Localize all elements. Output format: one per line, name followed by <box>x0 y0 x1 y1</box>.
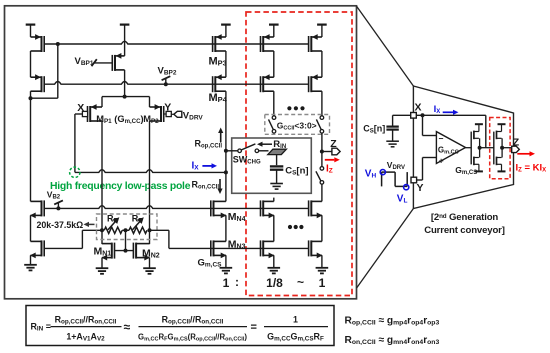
wire SWCHG to RIN <box>259 150 269 152</box>
label VB2 <box>47 189 61 200</box>
node VL circle (blue) <box>404 185 409 190</box>
node RF-left junction <box>100 228 104 232</box>
wire X to CS[n] <box>393 115 411 125</box>
arrow Iz (red) <box>325 157 340 162</box>
wire T4 source to T5 drain <box>30 215 32 241</box>
wire X node line <box>75 170 226 173</box>
wire RF middle <box>122 229 129 231</box>
terminal Z pentagon (conveyor) <box>512 146 520 152</box>
ground symbol (conveyor CS) <box>386 141 399 147</box>
green dashed circle (low-pass pole node) <box>70 167 80 177</box>
wire MP2 source vertical <box>149 97 151 107</box>
wire rail1 (T1 gate / MP3 gate / branch PMOS gates) <box>44 41 308 44</box>
wire X feedback vertical <box>485 115 487 147</box>
wire T2 drain to gate-feedback vertical <box>31 97 58 99</box>
wire T5 gate riser <box>81 230 83 248</box>
label VL (blue) <box>397 193 408 204</box>
VDD symbol (branch 2) <box>317 25 327 37</box>
terminal X square (conveyor) <box>411 113 417 119</box>
transistor P1a (branch PMOS) <box>261 34 274 52</box>
wire X to amp inverting input <box>423 115 437 135</box>
resistor RF (right) <box>129 227 147 233</box>
wire PA/NA drain link <box>479 138 481 157</box>
arrow Iz (conveyor, red) <box>517 151 535 156</box>
ellipsis dots (NMOS branches) <box>288 225 304 229</box>
waveform VDRV <box>382 172 408 186</box>
label MP2 <box>143 114 159 125</box>
fraction 3 bar <box>264 326 328 328</box>
wire MP4 drain down main column <box>225 91 227 201</box>
wire MN4 source to MN3 drain <box>225 215 227 241</box>
label ratio colon <box>235 275 239 289</box>
wire amp output <box>466 147 472 149</box>
resistor RF (left) <box>104 227 122 233</box>
svg-text:X: X <box>415 102 422 114</box>
node stage A output <box>478 146 482 150</box>
node RF-right junction <box>148 228 152 232</box>
fraction 2 denominator <box>138 333 247 343</box>
callout line bottom <box>357 209 414 289</box>
VDD symbol (left mirror) <box>26 25 36 37</box>
equation RIN lhs <box>31 322 51 333</box>
gate bar stage A <box>470 132 472 165</box>
svg-text:1: 1 <box>223 276 230 290</box>
label RF (left) <box>107 214 118 225</box>
transistor NB (conveyor NMOS B) <box>497 157 506 172</box>
label VDRV <box>183 111 204 122</box>
wire N1b source down <box>273 255 275 267</box>
transistor MN1 <box>101 243 114 261</box>
wire N2b source down <box>321 255 323 267</box>
fraction 1 numerator <box>55 314 117 325</box>
transistor T1 (PMOS mirror top) <box>31 34 45 52</box>
svg-text:1: 1 <box>319 276 326 290</box>
terminal X square <box>82 111 87 116</box>
node tail junction <box>123 95 127 99</box>
label plus <box>439 155 444 165</box>
ground symbol (N1b) <box>268 268 281 274</box>
switch GCCII branch 2 <box>316 116 323 133</box>
wire switch2 to Z node <box>321 133 323 151</box>
svg-text:=: = <box>251 322 257 334</box>
wire vertical T1 gate to T2 drain <box>57 44 59 98</box>
label ratio tilde <box>297 275 304 289</box>
transistor N1b (branch NMOS) <box>261 240 275 258</box>
transistor MP3 (PMOS) <box>213 34 226 52</box>
label 20k-37.5k <box>37 220 84 230</box>
transistor MP4 (PMOS cascode) <box>213 74 226 92</box>
label Z (conveyor) <box>513 137 520 149</box>
arrow RF-left trim <box>108 217 119 230</box>
wire rail3 (MN4/branch gate rail) <box>44 206 308 209</box>
transistor P1b (branch PMOS cascode) <box>261 74 274 92</box>
ground symbol (MN1) <box>96 268 109 274</box>
fraction 3 denominator <box>267 332 324 343</box>
arrow RIN pointer <box>257 142 272 147</box>
transistor T2 (PMOS cascode mirror) <box>31 74 45 92</box>
wire N1a-N1b link <box>273 215 275 241</box>
terminal Z pentagon <box>332 148 340 155</box>
wire RIN to CS <box>276 155 278 166</box>
ground symbol (MN2) <box>143 268 156 274</box>
VDD symbol (MP3) <box>221 25 231 37</box>
label VH (blue) <box>365 168 377 179</box>
label MP4 <box>209 92 228 104</box>
resistor RIN (parallelogram) <box>268 149 287 154</box>
transistor N1a (branch NMOS cascode) <box>261 200 275 218</box>
wire T5 source down <box>30 255 32 264</box>
wire RF-right to MN3-gate riser <box>150 229 169 231</box>
wire Z out (conveyor) <box>502 147 512 149</box>
node T2 drain junction <box>29 96 33 100</box>
svg-text:+: + <box>439 155 444 165</box>
transistor P2a (branch PMOS) <box>309 34 322 52</box>
label MP1 (Gm,CC) MP2 <box>96 114 143 125</box>
label VBP1 <box>75 56 94 67</box>
wire left column vertical down to VB2 device <box>30 98 32 201</box>
callout line top <box>357 6 414 86</box>
wire RF-left stub <box>82 229 102 231</box>
label Ron,CCII <box>192 179 220 190</box>
wire MP3 drain to MP4 source <box>225 51 227 77</box>
label VBP2 <box>158 66 177 77</box>
label ratio 1/8 <box>266 276 283 290</box>
fraction 1 denominator <box>66 332 105 343</box>
switch SWCHG <box>238 144 259 153</box>
wire MP2 drain / MN2 drain column <box>149 121 151 244</box>
wire N2a-N2b link <box>321 215 323 241</box>
svg-text:−: − <box>439 134 444 144</box>
transistor MN4 (NMOS cascode) <box>211 200 227 218</box>
inner box (sampling network) <box>232 138 312 193</box>
capacitor CS[n] (conveyor) <box>386 127 398 141</box>
wire Z to terminal <box>322 151 332 153</box>
VDD symbol (branch 1) <box>269 25 279 37</box>
wire T2 drain down <box>30 91 32 98</box>
equation approx 1 <box>124 320 131 334</box>
transistor MP1 (Gm,CC pair left) <box>88 104 103 122</box>
wire MN1-MN2 gate link <box>115 250 134 252</box>
wire MN1 source down <box>101 258 103 268</box>
label Gm,CS <box>198 257 223 268</box>
label 2nd generation line2 <box>424 225 505 236</box>
bias tick VBP1 <box>92 59 97 66</box>
ground symbol (CS[n]) <box>270 184 283 190</box>
label SWCHG <box>233 154 261 165</box>
wire Y gate lead <box>164 113 166 115</box>
capacitor CS[n] <box>270 166 283 183</box>
svg-text:~: ~ <box>297 275 304 289</box>
wire X input vertical <box>74 114 76 172</box>
wire X horizontal (conveyor) <box>416 114 486 116</box>
wire T5 gate lead <box>44 247 82 249</box>
label ratio 1 (right) <box>319 276 326 290</box>
node SWCHG branch junction <box>224 149 228 153</box>
equation box <box>26 306 334 346</box>
arrow RF value pointer <box>84 222 95 227</box>
transistor MN2 <box>133 243 150 261</box>
wire T1 drain to T2 source <box>30 51 32 77</box>
fraction 2 bar <box>139 326 248 328</box>
conveyor trapezoid <box>413 86 513 209</box>
red dashed box (programmable branch region) <box>246 12 352 296</box>
arrow RF-right trim <box>133 217 144 230</box>
svg-text:1: 1 <box>293 314 298 324</box>
wire P2b drain to switch <box>321 91 323 116</box>
label VDRV (conveyor) <box>387 160 405 171</box>
node VH circle (blue) <box>380 170 385 175</box>
label MN2 <box>142 247 160 259</box>
svg-text:CS[n]: CS[n] <box>363 124 385 135</box>
terminal Y square <box>166 111 171 116</box>
svg-text:GCCII<3:0>: GCCII<3:0> <box>277 121 317 132</box>
label RIN <box>273 139 286 150</box>
svg-text:Current conveyor]: Current conveyor] <box>424 225 505 236</box>
transistor NA (conveyor NMOS A) <box>474 157 483 172</box>
wire MP1 drain / MN1 drain column <box>101 121 103 244</box>
symbol VDRV tag <box>171 111 182 117</box>
switch GCCII branch 1 <box>269 116 276 133</box>
node X junction (conveyor) <box>421 113 425 117</box>
svg-text:Y: Y <box>417 182 424 194</box>
arrow Ron down <box>217 179 222 194</box>
fraction 1 bar <box>51 326 122 328</box>
gate bar stage B <box>493 132 495 165</box>
node rail3/VB2 junction <box>56 206 60 210</box>
fraction 2 numerator <box>162 314 224 325</box>
gray dashed box (GCCII switches) <box>265 115 330 135</box>
node gate link junction <box>124 249 128 253</box>
svg-text:High frequency low-pass pole: High frequency low-pass pole <box>50 181 191 192</box>
wire rail4 (MN3/branch gate rail) <box>169 247 309 249</box>
transistor T5 (NMOS mirror bottom) <box>30 240 44 258</box>
svg-text:20k-37.5kΩ: 20k-37.5kΩ <box>37 220 84 230</box>
bias tick VBP2 <box>162 76 171 84</box>
VDD symbol (VBP1 device) <box>120 25 130 56</box>
label Ix (blue) <box>192 160 200 171</box>
equation Rop,CCII approx <box>345 316 440 327</box>
wire MN3 source down <box>225 255 227 267</box>
wire P1b drain to switch <box>273 91 275 116</box>
node X-line column junction <box>224 170 228 174</box>
transistor MP2 (Gm,CC pair right) <box>150 104 164 122</box>
op-amp Gm,CC (conveyor) <box>436 132 465 164</box>
wire P2a-P2b link <box>321 51 323 77</box>
transistor P2b (branch PMOS cascode) <box>309 74 322 92</box>
wire PB/NB drain link <box>501 138 503 157</box>
border frame (decorative) <box>5 6 357 299</box>
wire P1a-P1b link <box>273 51 275 77</box>
wire tail horizontal <box>102 96 150 98</box>
label CS[n] <box>285 166 308 177</box>
label Y (conveyor) <box>417 182 424 194</box>
label RF (right) <box>132 214 143 225</box>
ellipsis dots (PMOS branches) <box>287 106 304 110</box>
svg-text:CS[n]: CS[n] <box>285 166 308 177</box>
label Iz = KIx (red) <box>516 162 547 173</box>
node Z junction <box>320 150 324 154</box>
equation Ron,CCII approx <box>345 335 440 346</box>
svg-text:≈: ≈ <box>124 320 131 334</box>
label Ix (conveyor, blue) <box>434 104 441 115</box>
arrow Rop up <box>218 128 223 143</box>
transistor N2b (branch NMOS) <box>309 240 323 258</box>
label MP3 <box>209 56 227 68</box>
node RF-center junction <box>124 228 128 232</box>
node stage B output <box>500 146 504 150</box>
transistor PA (conveyor PMOS A) <box>474 124 483 139</box>
ground symbol (N2b) <box>316 268 329 274</box>
transistor T4 (NMOS cascode mirror, VB2) <box>30 200 44 218</box>
label Gm,CC (conveyor) <box>438 145 459 155</box>
wire X-column to SWCHG <box>226 150 238 152</box>
label X input <box>77 102 84 114</box>
label X (conveyor) <box>415 102 422 114</box>
wire MN2 source down <box>149 258 151 268</box>
label Gm,CS (conveyor) <box>455 165 477 176</box>
svg-text::: : <box>235 275 239 289</box>
wire N1a drain stub <box>273 198 275 202</box>
arrow Ix (blue) <box>202 163 217 168</box>
bias tick VB2 <box>54 200 63 208</box>
wire VBP1 gate lead <box>94 62 113 64</box>
transistor PB (conveyor PMOS B) <box>497 124 506 139</box>
svg-text:1/8: 1/8 <box>266 276 283 290</box>
label 2nd generation line1 <box>431 212 499 223</box>
transistor T3 (PMOS tail source, VBP1) <box>112 53 124 71</box>
equation equals <box>251 322 257 334</box>
wire Y to amp noninverting input <box>417 158 437 181</box>
label Iz (red) <box>326 163 333 174</box>
transistor N2a (branch NMOS cascode) <box>309 200 323 218</box>
node rail1-mirror junction <box>56 42 60 46</box>
terminal Y square (conveyor) <box>411 177 417 183</box>
label Rop,CCII <box>195 138 223 149</box>
transistor MN3 (Gm,CS NMOS) <box>211 240 227 258</box>
label MN4 <box>228 211 246 223</box>
arrow Ix (conveyor, blue) <box>443 110 459 115</box>
node rail2/VBP2 junction <box>164 82 168 86</box>
wire X gate lead <box>75 113 83 115</box>
wire stage A to stage B <box>480 147 494 149</box>
ground symbol (MN3) <box>220 268 233 274</box>
wire T3 drain down to rail2 and tail <box>124 70 126 97</box>
red dashed box (conveyor K branch) <box>490 118 510 179</box>
switch Z-branch lower <box>316 152 324 202</box>
fraction 3 numerator <box>293 314 298 324</box>
ground symbol (left mirror) <box>24 265 37 271</box>
label Y input <box>164 102 171 114</box>
label high frequency low-pass pole <box>50 181 191 192</box>
label Z <box>330 138 337 150</box>
label GCCII<3:0> <box>277 121 317 132</box>
wire MN3 gate riser <box>168 230 170 248</box>
label MN3 <box>228 238 246 250</box>
wire rail2 (cascode PMOS gate rail) with hops <box>44 82 308 85</box>
label ratio 1 <box>223 276 230 290</box>
wire MP1 source vertical <box>101 97 103 107</box>
label MN1 <box>94 245 112 257</box>
label minus <box>439 134 444 144</box>
wire RF-center riser <box>125 230 127 250</box>
label CS[n] (conveyor) <box>363 124 385 135</box>
gray dashed box (RF trim) <box>97 214 158 240</box>
